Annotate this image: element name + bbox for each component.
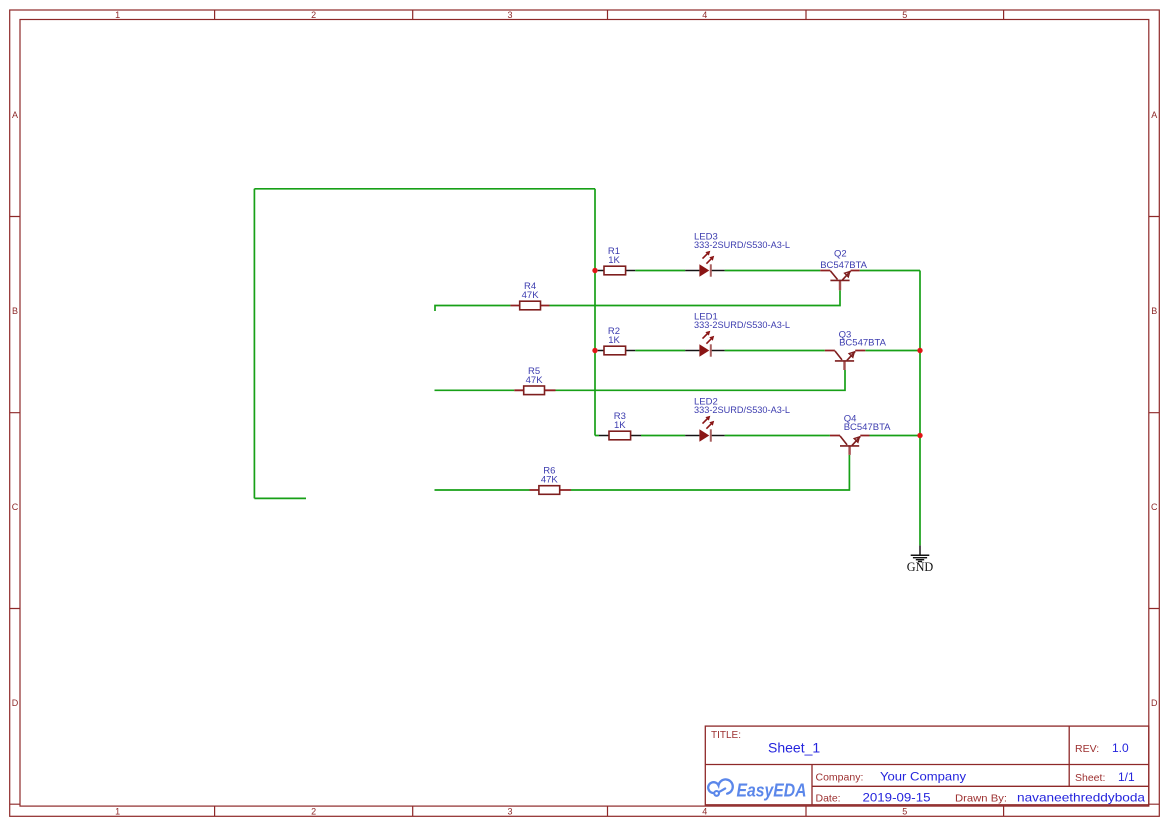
LED3 (685, 232, 790, 277)
svg-text:1.0: 1.0 (1112, 741, 1129, 755)
resistor R4 (510, 281, 549, 310)
frame row ticks left (10, 217, 20, 805)
svg-text:D: D (12, 698, 19, 708)
svg-text:3: 3 (507, 807, 512, 817)
svg-text:navaneethreddyboda: navaneethreddyboda (1017, 791, 1145, 805)
svg-text:4: 4 (702, 807, 707, 817)
svg-text:D: D (1151, 698, 1158, 708)
svg-text:A: A (12, 110, 18, 120)
wire row1 LED3 to Q2 (725, 270, 821, 272)
svg-text:BC547BTA: BC547BTA (839, 338, 886, 349)
resistor R6 (530, 466, 572, 495)
frame row letters left (12, 110, 19, 708)
frame row ticks right (1149, 217, 1160, 805)
frame row letters right (1151, 110, 1158, 708)
wire row1 Q2 emitter to right rail (860, 270, 920, 272)
wire bottom-left stub (254, 497, 306, 499)
svg-text:2: 2 (311, 807, 316, 817)
EasyEDA logo (708, 779, 806, 800)
wire right rail vertical (919, 271, 921, 546)
svg-text:C: C (1151, 502, 1158, 512)
junction node rail Q3 (917, 348, 922, 353)
svg-text:333-2SURD/S530-A3-L: 333-2SURD/S530-A3-L (694, 405, 790, 416)
svg-text:Sheet_1: Sheet_1 (768, 740, 820, 756)
svg-text:EasyEDA: EasyEDA (737, 781, 807, 801)
wire row1 R1 to LED3 (635, 270, 685, 272)
svg-text:5: 5 (902, 10, 907, 20)
wire row3 Q4 emitter to rail (870, 435, 921, 437)
svg-text:C: C (12, 502, 19, 512)
wire R6 net (435, 455, 850, 490)
title block row divider 2 (812, 785, 1149, 787)
svg-text:Drawn By:: Drawn By: (955, 793, 1007, 805)
svg-text:333-2SURD/S530-A3-L: 333-2SURD/S530-A3-L (694, 320, 790, 331)
svg-text:1: 1 (115, 10, 120, 20)
svg-text:B: B (1151, 306, 1157, 316)
resistor R3 (599, 411, 641, 440)
svg-text:47K: 47K (522, 290, 540, 301)
svg-text:4: 4 (702, 10, 707, 20)
resistor R2 (598, 326, 636, 355)
svg-text:BC547BTA: BC547BTA (820, 260, 867, 271)
svg-text:5: 5 (902, 807, 907, 817)
svg-text:1: 1 (115, 807, 120, 817)
svg-text:B: B (12, 306, 18, 316)
wire R5 net (435, 370, 846, 390)
svg-text:3: 3 (507, 10, 512, 20)
svg-text:REV:: REV: (1075, 743, 1099, 755)
svg-text:2: 2 (311, 10, 316, 20)
LED2 (685, 397, 790, 442)
junction node at R2 (592, 348, 597, 353)
svg-text:47K: 47K (526, 375, 544, 386)
junction node at R1 (592, 268, 597, 273)
title block rev cell divider (1068, 726, 1070, 786)
wire row3 LED2 to Q4 (725, 435, 830, 437)
svg-text:1K: 1K (614, 420, 626, 431)
junction node rail Q4 (917, 433, 922, 438)
transistor Q4 (830, 414, 891, 455)
title block row divider 1 (705, 764, 1149, 766)
svg-text:1K: 1K (608, 335, 620, 346)
svg-text:Q2: Q2 (834, 248, 847, 259)
svg-text:Sheet:: Sheet: (1075, 772, 1105, 784)
svg-text:2019-09-15: 2019-09-15 (863, 791, 931, 805)
title block outline (705, 726, 1149, 805)
transistor Q2 (820, 248, 867, 290)
svg-text:Date:: Date: (816, 793, 841, 805)
wire row2 R2 to LED1 (635, 350, 685, 352)
svg-text:Your Company: Your Company (880, 770, 966, 784)
wire top horizontal (254, 188, 595, 190)
frame column ticks bottom (215, 806, 1004, 816)
LED1 (685, 312, 790, 357)
transistor Q3 (825, 330, 887, 371)
svg-text:GND: GND (907, 559, 934, 574)
frame column numbers top (115, 10, 907, 20)
ground GND (907, 545, 934, 574)
wire left vertical (253, 189, 255, 499)
svg-text:Company:: Company: (816, 772, 864, 784)
svg-text:333-2SURD/S530-A3-L: 333-2SURD/S530-A3-L (694, 240, 790, 251)
wire row2 LED1 to Q3 (725, 350, 825, 352)
title block logo cell divider (811, 765, 813, 805)
wire row2 Q3 emitter to rail (865, 350, 920, 352)
svg-text:1K: 1K (608, 255, 620, 266)
svg-text:1/1: 1/1 (1118, 770, 1135, 784)
wire R4 net with stub (435, 290, 840, 311)
frame column ticks top (215, 10, 1004, 20)
resistor R5 (514, 366, 555, 395)
frame column numbers bottom (115, 807, 907, 817)
wire row3 corner to R3 (595, 435, 599, 437)
wire row3 R3 to LED2 (641, 435, 685, 437)
resistor R1 (598, 246, 636, 275)
svg-text:BC547BTA: BC547BTA (844, 422, 891, 433)
svg-text:TITLE:: TITLE: (711, 730, 741, 741)
svg-text:A: A (1151, 110, 1157, 120)
wire mid vertical bus (594, 189, 596, 436)
svg-text:47K: 47K (541, 475, 559, 486)
